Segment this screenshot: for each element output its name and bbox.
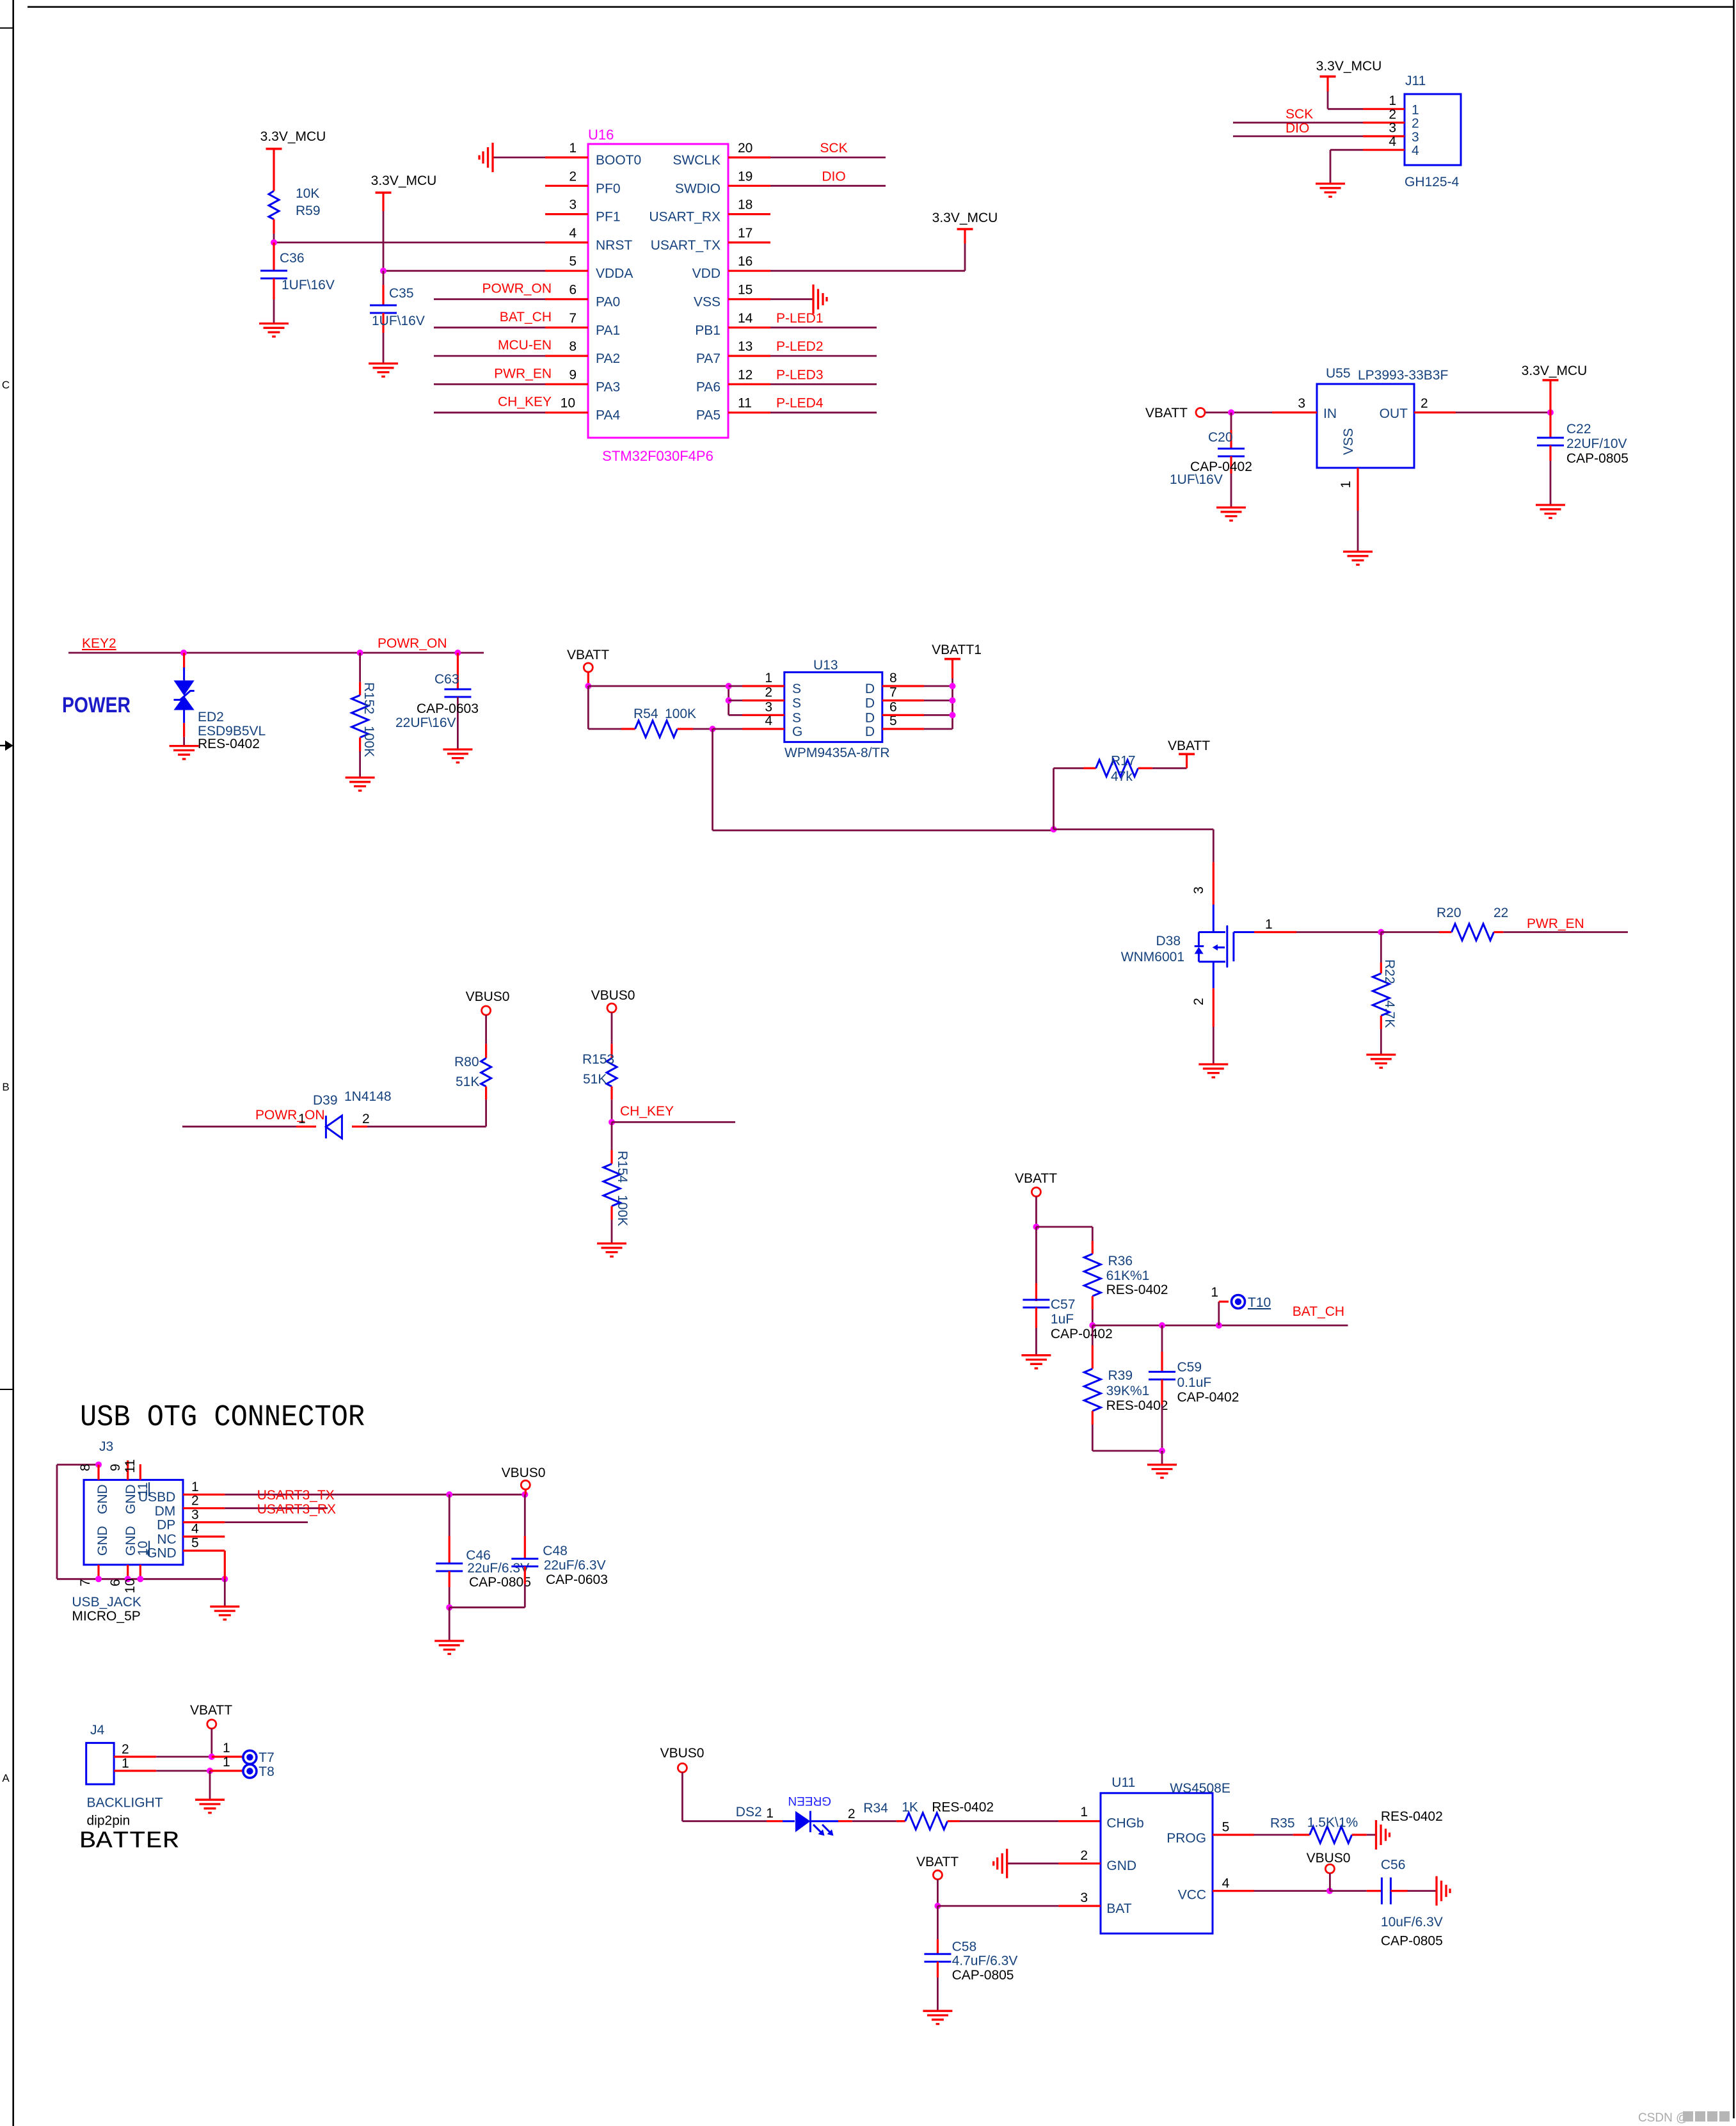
- svg-text:4: 4: [1222, 1876, 1230, 1891]
- svg-text:VBATT: VBATT: [1168, 739, 1210, 753]
- svg-text:USB OTG CONNECTOR: USB OTG CONNECTOR: [80, 1401, 365, 1435]
- svg-text:T7: T7: [259, 1750, 275, 1765]
- svg-text:VCC: VCC: [1178, 1887, 1206, 1902]
- svg-text:VBUS0: VBUS0: [466, 989, 510, 1004]
- svg-text:RES-0402: RES-0402: [198, 737, 260, 751]
- svg-text:6: 6: [889, 699, 897, 714]
- svg-text:R20: R20: [1437, 906, 1461, 920]
- svg-text:7: 7: [569, 311, 577, 326]
- svg-text:6: 6: [108, 1579, 123, 1587]
- svg-text:R39: R39: [1108, 1368, 1133, 1383]
- svg-text:LP3993-33B3F: LP3993-33B3F: [1358, 368, 1448, 383]
- svg-text:VBATT: VBATT: [916, 1855, 959, 1869]
- svg-text:11: 11: [123, 1459, 138, 1473]
- svg-text:BAT_CH: BAT_CH: [500, 310, 552, 324]
- svg-text:1: 1: [1339, 481, 1353, 488]
- svg-text:1: 1: [223, 1755, 230, 1770]
- svg-text:GND: GND: [95, 1526, 110, 1556]
- svg-text:3.3V_MCU: 3.3V_MCU: [932, 211, 998, 225]
- svg-text:RES-0402: RES-0402: [932, 1800, 994, 1815]
- svg-text:D: D: [865, 696, 875, 711]
- svg-text:PF0: PF0: [596, 181, 621, 196]
- svg-text:VBUS0: VBUS0: [1307, 1851, 1351, 1866]
- svg-text:19: 19: [738, 169, 753, 184]
- svg-text:1uF: 1uF: [1051, 1312, 1074, 1327]
- svg-text:2: 2: [765, 685, 772, 700]
- svg-text:C57: C57: [1051, 1297, 1076, 1312]
- svg-text:10: 10: [561, 396, 575, 411]
- svg-text:PA4: PA4: [596, 408, 620, 423]
- svg-text:C20: C20: [1208, 430, 1233, 445]
- svg-text:PWR_EN: PWR_EN: [1527, 916, 1584, 931]
- svg-text:WPM9435A-8/TR: WPM9435A-8/TR: [784, 746, 890, 760]
- svg-text:2: 2: [569, 169, 577, 184]
- svg-text:1N4148: 1N4148: [344, 1089, 392, 1104]
- svg-text:C35: C35: [389, 286, 414, 301]
- svg-text:10uF/6.3V: 10uF/6.3V: [1381, 1915, 1443, 1930]
- svg-text:VDDA: VDDA: [596, 266, 633, 281]
- svg-text:8: 8: [569, 339, 577, 354]
- svg-text:GND: GND: [95, 1484, 110, 1514]
- svg-text:VSS: VSS: [694, 295, 721, 310]
- svg-text:2: 2: [1389, 107, 1396, 122]
- svg-text:3: 3: [1080, 1890, 1088, 1905]
- svg-text:3: 3: [1389, 121, 1396, 136]
- svg-text:22uF/6.3V: 22uF/6.3V: [544, 1558, 606, 1572]
- svg-text:6: 6: [569, 283, 577, 298]
- svg-text:4: 4: [1412, 143, 1419, 158]
- svg-text:2: 2: [1412, 116, 1419, 131]
- svg-text:C63: C63: [434, 672, 459, 687]
- svg-text:VBATT: VBATT: [190, 1703, 232, 1718]
- svg-text:VDD: VDD: [692, 266, 721, 281]
- svg-text:R59: R59: [296, 204, 321, 218]
- svg-text:1: 1: [1412, 102, 1419, 117]
- svg-text:PWR_EN: PWR_EN: [494, 366, 552, 381]
- svg-text:4.7K: 4.7K: [1382, 1000, 1397, 1028]
- svg-text:VBATT: VBATT: [567, 648, 609, 662]
- svg-text:CAP-0805: CAP-0805: [1566, 451, 1628, 466]
- svg-text:3.3V_MCU: 3.3V_MCU: [260, 129, 326, 144]
- svg-text:R80: R80: [454, 1055, 479, 1069]
- svg-text:2: 2: [362, 1112, 370, 1126]
- svg-text:SCK: SCK: [820, 141, 847, 156]
- svg-text:11: 11: [738, 396, 752, 411]
- svg-text:U55: U55: [1326, 366, 1351, 381]
- svg-text:CAP-0603: CAP-0603: [417, 701, 479, 716]
- svg-text:USART_TX: USART_TX: [651, 238, 721, 253]
- svg-text:J4: J4: [90, 1723, 105, 1738]
- svg-text:2: 2: [848, 1807, 856, 1821]
- svg-text:PA2: PA2: [596, 351, 620, 366]
- svg-text:22UF\16V: 22UF\16V: [395, 715, 456, 730]
- svg-text:1: 1: [569, 141, 577, 156]
- svg-text:R17: R17: [1111, 754, 1136, 769]
- svg-text:S: S: [792, 710, 801, 725]
- svg-text:STM32F030F4P6: STM32F030F4P6: [602, 448, 713, 464]
- svg-text:MCU-EN: MCU-EN: [498, 338, 552, 353]
- svg-text:R153: R153: [582, 1052, 614, 1067]
- svg-text:3.3V_MCU: 3.3V_MCU: [1316, 59, 1382, 74]
- svg-text:P-LED2: P-LED2: [776, 339, 824, 354]
- svg-text:51K: 51K: [456, 1075, 479, 1089]
- svg-text:3: 3: [1412, 130, 1419, 145]
- svg-text:P-LED1: P-LED1: [776, 311, 824, 326]
- svg-text:3.3V_MCU: 3.3V_MCU: [1522, 364, 1588, 378]
- svg-text:CH_KEY: CH_KEY: [498, 395, 552, 410]
- svg-text:22: 22: [1493, 906, 1508, 920]
- svg-text:CAP-0603: CAP-0603: [546, 1572, 608, 1587]
- svg-text:1: 1: [191, 1480, 199, 1494]
- svg-text:OUT: OUT: [1380, 406, 1408, 421]
- svg-text:D38: D38: [1156, 934, 1181, 948]
- svg-text:2: 2: [191, 1493, 199, 1508]
- svg-text:7: 7: [889, 685, 897, 700]
- svg-text:1: 1: [122, 1756, 129, 1771]
- svg-text:R36: R36: [1108, 1254, 1133, 1268]
- svg-text:GND: GND: [147, 1546, 177, 1561]
- svg-text:CH_KEY: CH_KEY: [620, 1104, 674, 1119]
- svg-text:R54: R54: [633, 707, 658, 721]
- svg-text:39K%1: 39K%1: [1106, 1384, 1150, 1398]
- svg-text:DM: DM: [155, 1504, 176, 1519]
- svg-text:DP: DP: [157, 1518, 175, 1533]
- svg-text:D: D: [865, 710, 875, 725]
- svg-text:17: 17: [738, 226, 753, 241]
- svg-text:3: 3: [569, 198, 577, 212]
- svg-text:G: G: [792, 724, 802, 739]
- svg-text:USB_JACK: USB_JACK: [72, 1595, 141, 1610]
- svg-text:SWDIO: SWDIO: [675, 181, 721, 196]
- svg-text:100K: 100K: [665, 707, 696, 721]
- svg-text:VBATT1: VBATT1: [932, 643, 982, 657]
- svg-text:VBUS0: VBUS0: [660, 1746, 705, 1761]
- svg-text:15: 15: [738, 283, 753, 298]
- svg-text:C59: C59: [1177, 1360, 1202, 1375]
- svg-text:4: 4: [765, 714, 772, 728]
- svg-text:1: 1: [223, 1741, 230, 1755]
- svg-text:POWER: POWER: [62, 693, 131, 717]
- svg-text:PA6: PA6: [696, 380, 721, 394]
- svg-text:R35: R35: [1270, 1816, 1295, 1831]
- svg-text:GREEN: GREEN: [788, 1794, 831, 1807]
- svg-text:1: 1: [766, 1806, 774, 1821]
- svg-text:C22: C22: [1566, 422, 1591, 436]
- svg-text:DIO: DIO: [822, 169, 845, 184]
- svg-text:5: 5: [569, 254, 577, 269]
- svg-text:16: 16: [738, 254, 753, 269]
- svg-text:NRST: NRST: [596, 238, 632, 253]
- svg-text:USART3_RX: USART3_RX: [257, 1502, 336, 1517]
- svg-text:U16: U16: [588, 127, 614, 143]
- svg-text:9: 9: [569, 367, 577, 382]
- svg-text:IN: IN: [1323, 406, 1337, 421]
- svg-text:1: 1: [765, 671, 772, 685]
- svg-text:C56: C56: [1381, 1857, 1406, 1872]
- svg-text:7: 7: [78, 1579, 93, 1587]
- svg-text:PF1: PF1: [596, 210, 621, 225]
- svg-text:GND: GND: [1106, 1858, 1136, 1873]
- svg-text:3: 3: [1191, 886, 1206, 894]
- svg-text:1: 1: [298, 1112, 306, 1126]
- svg-text:5: 5: [191, 1536, 199, 1551]
- svg-text:CAP-0805: CAP-0805: [1381, 1933, 1443, 1948]
- svg-text:22uF/6.3V: 22uF/6.3V: [467, 1561, 529, 1576]
- svg-text:B: B: [2, 1081, 9, 1093]
- svg-text:PA1: PA1: [596, 323, 620, 338]
- svg-text:1: 1: [1211, 1285, 1218, 1300]
- svg-text:1K: 1K: [902, 1800, 918, 1815]
- svg-text:C58: C58: [952, 1940, 977, 1954]
- svg-text:R34: R34: [863, 1801, 888, 1816]
- svg-text:A: A: [2, 1772, 10, 1784]
- svg-text:SCK: SCK: [1286, 107, 1313, 122]
- svg-text:4: 4: [191, 1522, 199, 1537]
- svg-text:USBD: USBD: [138, 1490, 175, 1505]
- svg-text:20: 20: [738, 141, 753, 156]
- svg-text:USART_RX: USART_RX: [649, 210, 721, 225]
- svg-text:13: 13: [738, 339, 753, 354]
- svg-text:PA0: PA0: [596, 295, 620, 310]
- svg-text:CSDN @: CSDN @: [1638, 2111, 1688, 2125]
- svg-text:1UF\16V: 1UF\16V: [1170, 472, 1223, 487]
- svg-text:1: 1: [1265, 917, 1273, 932]
- svg-text:DIO: DIO: [1286, 121, 1309, 136]
- svg-text:PROG: PROG: [1167, 1831, 1206, 1846]
- svg-text:10K: 10K: [296, 186, 319, 201]
- svg-text:1UF\16V: 1UF\16V: [372, 314, 425, 328]
- svg-text:CAP-0805: CAP-0805: [952, 1968, 1014, 1983]
- svg-text:18: 18: [738, 198, 753, 212]
- svg-text:12: 12: [738, 367, 753, 382]
- svg-text:CAP-0402: CAP-0402: [1051, 1327, 1113, 1341]
- svg-text:2: 2: [122, 1742, 129, 1757]
- svg-text:14: 14: [738, 311, 753, 326]
- svg-text:BAT: BAT: [1106, 1901, 1131, 1916]
- svg-text:47k: 47k: [1111, 769, 1133, 784]
- svg-text:KEY2: KEY2: [82, 636, 116, 651]
- svg-text:PA5: PA5: [696, 408, 721, 423]
- svg-text:POWR_ON: POWR_ON: [378, 636, 447, 651]
- svg-text:RES-0402: RES-0402: [1106, 1283, 1168, 1297]
- svg-text:1: 1: [1389, 93, 1396, 108]
- svg-text:BATTER: BATTER: [79, 1828, 179, 1855]
- svg-text:1.5K\1%: 1.5K\1%: [1307, 1816, 1358, 1830]
- svg-text:J11: J11: [1405, 74, 1426, 88]
- svg-text:PA7: PA7: [696, 351, 721, 366]
- svg-text:MICRO_5P: MICRO_5P: [72, 1609, 140, 1624]
- svg-text:GH125-4: GH125-4: [1405, 175, 1460, 189]
- svg-text:BOOT0: BOOT0: [596, 153, 641, 168]
- svg-text:4: 4: [1389, 134, 1396, 149]
- svg-text:D: D: [865, 724, 875, 739]
- svg-text:VBATT: VBATT: [1015, 1171, 1057, 1186]
- svg-text:100K: 100K: [615, 1195, 630, 1226]
- svg-text:4: 4: [569, 226, 577, 241]
- svg-text:100K: 100K: [362, 726, 376, 757]
- svg-text:T10: T10: [1248, 1295, 1271, 1310]
- svg-text:ED2: ED2: [198, 710, 224, 724]
- svg-text:1UF\16V: 1UF\16V: [282, 278, 335, 292]
- svg-text:VBUS0: VBUS0: [502, 1466, 546, 1480]
- svg-text:3: 3: [191, 1507, 199, 1522]
- svg-text:P-LED3: P-LED3: [776, 367, 824, 382]
- svg-text:R22: R22: [1382, 959, 1397, 984]
- svg-text:POWR_ON: POWR_ON: [255, 1108, 325, 1123]
- svg-text:8: 8: [78, 1464, 93, 1471]
- svg-text:R152: R152: [362, 682, 376, 714]
- svg-text:2: 2: [1080, 1848, 1088, 1863]
- svg-text:PB1: PB1: [695, 323, 721, 338]
- svg-text:U11: U11: [1111, 1775, 1135, 1790]
- svg-text:S: S: [792, 682, 801, 696]
- svg-text:5: 5: [1222, 1820, 1230, 1835]
- svg-text:dip2pin: dip2pin: [87, 1813, 131, 1828]
- svg-text:VSS: VSS: [1341, 428, 1356, 455]
- svg-text:C36: C36: [280, 251, 305, 266]
- svg-text:3.3V_MCU: 3.3V_MCU: [371, 173, 437, 188]
- svg-text:P-LED4: P-LED4: [776, 396, 824, 411]
- svg-text:WS4508E: WS4508E: [1170, 1781, 1230, 1796]
- svg-text:PA3: PA3: [596, 380, 620, 394]
- svg-text:BACKLIGHT: BACKLIGHT: [87, 1795, 163, 1810]
- svg-text:T8: T8: [259, 1764, 275, 1779]
- svg-text:22UF/10V: 22UF/10V: [1566, 436, 1627, 451]
- svg-text:S: S: [792, 696, 801, 711]
- svg-text:3: 3: [1298, 396, 1305, 411]
- svg-text:0.1uF: 0.1uF: [1177, 1375, 1212, 1390]
- svg-text:USART3_TX: USART3_TX: [257, 1488, 335, 1503]
- svg-text:U13: U13: [813, 658, 838, 673]
- svg-text:CAP-0402: CAP-0402: [1177, 1390, 1239, 1405]
- svg-text:VBATT: VBATT: [1145, 406, 1188, 420]
- svg-text:2: 2: [1421, 396, 1428, 411]
- svg-text:WNM6001: WNM6001: [1121, 950, 1184, 964]
- svg-text:51K: 51K: [583, 1072, 607, 1087]
- svg-text:9: 9: [108, 1464, 123, 1471]
- svg-text:J3: J3: [99, 1439, 113, 1454]
- svg-text:NC: NC: [157, 1532, 176, 1547]
- svg-text:10: 10: [123, 1578, 138, 1593]
- svg-text:D: D: [865, 682, 875, 696]
- svg-text:C48: C48: [543, 1544, 568, 1558]
- svg-text:C: C: [2, 379, 10, 391]
- svg-text:D39: D39: [313, 1093, 338, 1108]
- svg-text:61K%1: 61K%1: [1106, 1268, 1150, 1283]
- svg-text:1: 1: [1080, 1805, 1088, 1819]
- svg-text:8: 8: [889, 671, 897, 685]
- svg-text:POWR_ON: POWR_ON: [482, 282, 552, 296]
- svg-text:4.7uF/6.3V: 4.7uF/6.3V: [952, 1954, 1018, 1969]
- svg-text:RES-0402: RES-0402: [1381, 1809, 1443, 1824]
- svg-text:RES-0402: RES-0402: [1106, 1398, 1168, 1413]
- svg-text:DS2: DS2: [736, 1805, 762, 1819]
- svg-text:CAP-0805: CAP-0805: [469, 1575, 531, 1590]
- svg-text:SWCLK: SWCLK: [673, 153, 721, 168]
- svg-text:R154: R154: [615, 1151, 630, 1183]
- svg-text:CHGb: CHGb: [1106, 1816, 1143, 1831]
- svg-text:3: 3: [765, 699, 772, 714]
- svg-text:VBUS0: VBUS0: [591, 988, 635, 1003]
- svg-text:BAT_CH: BAT_CH: [1293, 1304, 1344, 1319]
- svg-text:2: 2: [1191, 998, 1206, 1005]
